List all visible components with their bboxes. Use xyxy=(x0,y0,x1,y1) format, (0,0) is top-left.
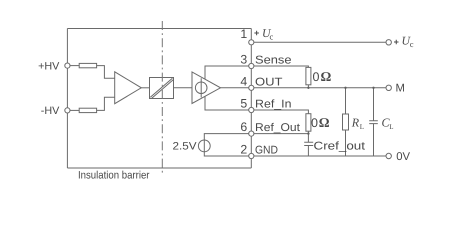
pin 6 node xyxy=(249,131,254,136)
wire CL top xyxy=(373,88,375,121)
svg-text:4: 4 xyxy=(240,74,247,88)
wire -HV to amp xyxy=(97,97,115,110)
svg-text:Cref_out: Cref_out xyxy=(314,140,367,152)
wire +HV to amp xyxy=(97,66,115,79)
label +Uc terminal xyxy=(394,34,414,50)
wire pin1 to +Uc terminal xyxy=(251,41,386,43)
wire resistor to out line xyxy=(307,85,309,88)
output amp source circle xyxy=(195,82,207,94)
junction dot ref_out xyxy=(307,132,309,134)
pin 1 node xyxy=(249,40,254,45)
value label CL xyxy=(382,116,394,132)
op-amp input buffer xyxy=(115,72,142,104)
svg-text:c: c xyxy=(270,32,274,42)
pin 4 node xyxy=(249,85,254,90)
svg-text:0: 0 xyxy=(313,70,320,84)
wire -HV stub xyxy=(70,109,79,111)
svg-text:L: L xyxy=(360,123,364,131)
pin 5 node xyxy=(249,107,254,112)
voltage source 2.5V circle xyxy=(198,140,210,152)
svg-text:L: L xyxy=(389,123,393,131)
coupler diagonal 2 xyxy=(152,80,174,99)
resistor input -HV xyxy=(79,108,96,112)
resistor RL xyxy=(343,114,349,130)
wire top rail xyxy=(67,28,251,30)
svg-text:R: R xyxy=(351,116,360,130)
wire sense tap xyxy=(205,66,251,80)
wire cref top xyxy=(307,134,309,143)
svg-text:3: 3 xyxy=(240,53,247,67)
wire CL bottom xyxy=(373,124,375,156)
insulation barrier dash-dot line xyxy=(161,21,163,173)
svg-text:2: 2 xyxy=(240,143,247,157)
terminal 0V xyxy=(386,153,391,158)
wire sense to resistor xyxy=(251,66,308,67)
wire coupler to output amp xyxy=(174,87,193,89)
isolation coupler box xyxy=(150,78,174,99)
wire RL top xyxy=(345,88,347,114)
wire ref_in to resistor xyxy=(251,110,308,114)
svg-text:Ω: Ω xyxy=(321,69,332,84)
terminal +HV xyxy=(65,63,70,68)
value label 0 ohm ref xyxy=(311,115,330,130)
capacitor CL xyxy=(369,121,378,124)
capacitor Cref_out xyxy=(304,142,313,145)
op-amp output stage xyxy=(192,72,221,104)
svg-text:2.5V: 2.5V xyxy=(173,140,198,152)
wire resistor to ref_out line xyxy=(307,131,309,133)
wire left rail xyxy=(66,29,68,169)
wire source top to pin6 xyxy=(204,134,248,140)
junction dot RL-out xyxy=(344,87,346,89)
svg-text:c: c xyxy=(410,39,414,49)
wire amp out to pin4 xyxy=(221,87,252,89)
wire ref_out line xyxy=(251,133,308,135)
terminal M xyxy=(386,85,391,90)
wire pin column xyxy=(250,29,252,169)
pin 2 node xyxy=(249,153,254,158)
coupler diagonal 1 xyxy=(150,78,172,97)
terminal +Uc xyxy=(386,40,391,45)
svg-text:Insulation barrier: Insulation barrier xyxy=(78,170,150,182)
wire amp to coupler xyxy=(141,87,149,89)
junction dot sense-out xyxy=(307,87,309,89)
svg-text:0V: 0V xyxy=(396,151,410,163)
wire source bottom to pin2 xyxy=(204,152,248,156)
label +Uc pin1 xyxy=(254,26,274,42)
svg-text:Ref_Out: Ref_Out xyxy=(255,122,301,134)
svg-text:-HV: -HV xyxy=(41,105,60,117)
svg-text:5: 5 xyxy=(240,97,247,111)
resistor input +HV xyxy=(79,63,96,67)
svg-text:0: 0 xyxy=(311,116,318,130)
wire gnd line to 0V xyxy=(251,155,386,157)
resistor 0ohm sense xyxy=(306,67,311,84)
wire ref_in tap xyxy=(205,96,251,110)
wire out line to M xyxy=(251,87,386,89)
svg-text:Ref_In: Ref_In xyxy=(255,99,292,111)
svg-text:+HV: +HV xyxy=(38,60,60,72)
svg-text:6: 6 xyxy=(240,120,247,134)
svg-text:Sense: Sense xyxy=(255,55,292,67)
svg-text:+: + xyxy=(254,28,259,38)
svg-text:GND: GND xyxy=(255,145,278,157)
svg-text:Ω: Ω xyxy=(319,115,330,130)
wire cref bottom xyxy=(307,146,309,157)
svg-text:M: M xyxy=(396,82,405,94)
pin 3 node xyxy=(249,63,254,68)
value label RL xyxy=(351,116,364,132)
resistor 0ohm ref xyxy=(306,114,311,132)
wire +HV stub xyxy=(70,65,79,67)
terminal -HV xyxy=(65,108,70,113)
svg-text:1: 1 xyxy=(240,27,247,41)
wire bottom left xyxy=(67,167,251,169)
svg-text:+: + xyxy=(394,37,399,47)
junction dot CL-out xyxy=(372,87,374,89)
value label 0 ohm sense xyxy=(313,69,332,84)
svg-text:OUT: OUT xyxy=(255,76,283,88)
wire RL bottom xyxy=(345,130,347,156)
